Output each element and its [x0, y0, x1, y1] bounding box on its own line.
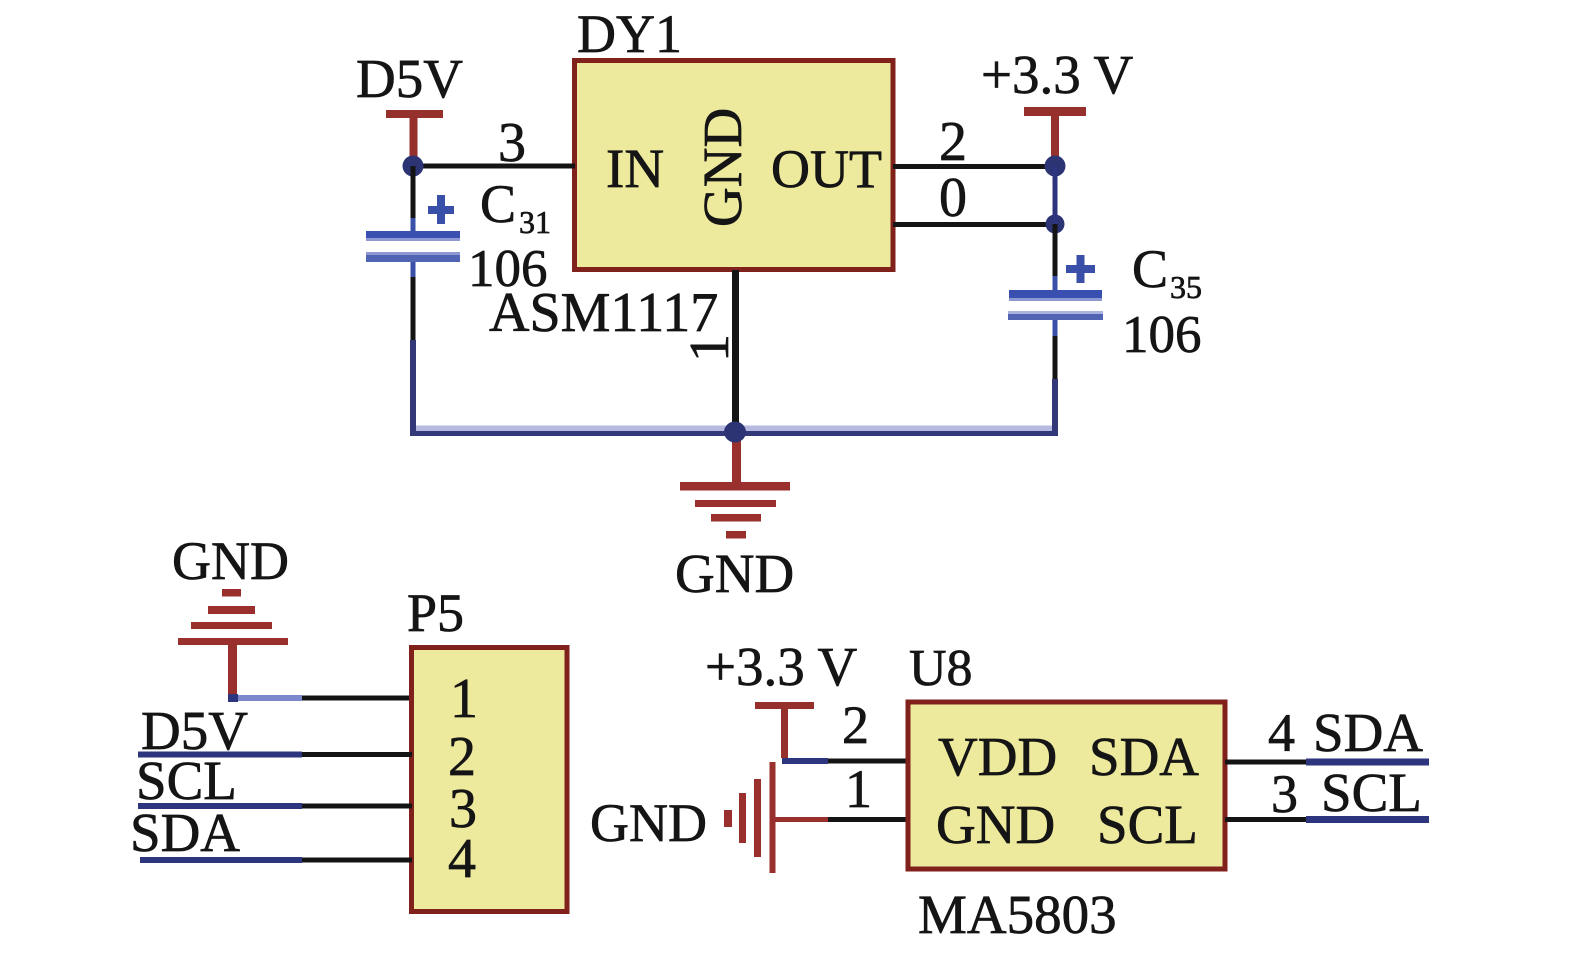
svg-text:2: 2 [842, 695, 869, 755]
wire ground bus [410, 426, 1058, 437]
svg-text:VDD: VDD [938, 726, 1057, 787]
P5 pin number 2 [448, 726, 476, 788]
svg-text:106: 106 [1122, 306, 1202, 364]
pin number 1 (U8) [845, 759, 872, 819]
value MA5803 [918, 884, 1117, 945]
wire regulator GND pin to ground bus [732, 270, 739, 433]
net label SCL [136, 750, 237, 811]
junction dot ground bus [724, 422, 746, 443]
svg-text:31: 31 [519, 204, 551, 240]
value ASM1117 [489, 282, 718, 344]
junction dot at +3.3V [1045, 156, 1066, 177]
capacitor C31 [366, 166, 460, 433]
power flag D5V [356, 48, 463, 166]
pin name GND (rotated) [692, 108, 753, 227]
value 106 (C35) [1122, 306, 1202, 364]
pin name SCL [1097, 794, 1198, 855]
svg-text:GND: GND [692, 108, 753, 227]
wire pin3 (D5V to IN) [412, 164, 575, 169]
net label D5V [141, 700, 248, 761]
label P5 [407, 583, 464, 643]
wire U8 pin1 [828, 817, 908, 822]
pin number 4 [1268, 703, 1295, 763]
pin number 3 [498, 112, 526, 174]
net label SCL (right) [1321, 762, 1422, 823]
net label SDA [130, 802, 240, 863]
net label SDA (right) [1313, 702, 1423, 763]
svg-text:3: 3 [1271, 764, 1298, 824]
svg-text:0: 0 [939, 167, 967, 229]
connector P5 body [412, 648, 568, 912]
svg-text:1: 1 [845, 759, 872, 819]
capacitor C35 [1008, 255, 1103, 433]
pin number 1 (rotated) [679, 334, 741, 362]
svg-text:35: 35 [1170, 269, 1202, 305]
svg-text:SCL: SCL [1321, 762, 1422, 823]
wire P5 pin4 [140, 857, 412, 863]
value 106 (C31) [468, 240, 548, 298]
wire between junctions [1053, 166, 1058, 291]
svg-text:SDA: SDA [1313, 702, 1423, 763]
wire P5 pin2 [138, 752, 412, 758]
pin name SDA [1089, 726, 1199, 787]
svg-text:SDA: SDA [1089, 726, 1199, 787]
wire pin2 (OUT to +3.3V) [893, 164, 1055, 169]
wire P5 pin1 [228, 694, 412, 702]
svg-text:C: C [1132, 239, 1168, 299]
svg-text:U8: U8 [909, 640, 973, 697]
P5 pin number 3 [449, 778, 477, 840]
pin name GND [936, 794, 1055, 855]
svg-text:2: 2 [939, 111, 967, 173]
pin number 2 [939, 111, 967, 173]
ground symbol GND (main) [675, 432, 794, 604]
svg-text:IN: IN [606, 138, 664, 199]
svg-text:DY1: DY1 [577, 4, 682, 64]
wire P5 pin3 [138, 803, 412, 809]
label C31 [480, 174, 551, 240]
IC U8 body [908, 702, 1225, 869]
node junction at D5V [403, 156, 424, 177]
svg-text:P5: P5 [407, 583, 464, 643]
P5 pin number 1 [450, 668, 478, 730]
svg-text:4: 4 [1268, 703, 1295, 763]
wire U8 pin4 (SDA out) [1225, 759, 1429, 766]
pin number 3 [1271, 764, 1298, 824]
wire U8 pin3 (SCL out) [1225, 816, 1429, 823]
svg-text:4: 4 [448, 828, 476, 890]
svg-text:OUT: OUT [771, 139, 882, 199]
junction dot lower [1046, 215, 1065, 234]
svg-text:1: 1 [679, 334, 741, 362]
label U8 [909, 640, 973, 697]
svg-text:GND: GND [172, 531, 289, 591]
svg-text:SCL: SCL [1097, 794, 1198, 855]
power flag +3.3V (bottom) [705, 636, 858, 758]
P5 pin number 4 [448, 828, 476, 890]
svg-text:3: 3 [498, 112, 526, 174]
ground symbol GND (bottom-left, inverted) [172, 531, 289, 694]
power flag +3.3V (top) [981, 44, 1134, 166]
svg-text:D5V: D5V [356, 48, 463, 109]
svg-text:GND: GND [675, 543, 794, 604]
wire pin0 [893, 222, 1055, 227]
label C35 [1132, 239, 1202, 305]
wire U8 pin2 [782, 758, 908, 764]
svg-text:MA5803: MA5803 [918, 884, 1117, 945]
pin number 2 (U8) [842, 695, 869, 755]
svg-text:GND: GND [590, 793, 707, 853]
pin name IN [606, 138, 664, 199]
regulator DY1 body [575, 61, 894, 270]
svg-text:C: C [480, 174, 516, 234]
svg-text:+3.3 V: +3.3 V [981, 44, 1134, 105]
pin number 0 [939, 167, 967, 229]
svg-text:GND: GND [936, 794, 1055, 855]
svg-text:1: 1 [450, 668, 478, 730]
svg-text:SDA: SDA [130, 802, 240, 863]
svg-text:106: 106 [468, 240, 548, 298]
pin name VDD [938, 726, 1057, 787]
label DY1 [577, 4, 682, 64]
svg-text:+3.3 V: +3.3 V [705, 636, 858, 697]
pin name OUT [771, 139, 882, 199]
ground symbol GND (sideways, at U8) [590, 762, 831, 873]
